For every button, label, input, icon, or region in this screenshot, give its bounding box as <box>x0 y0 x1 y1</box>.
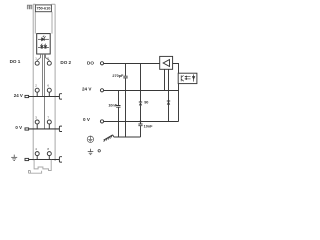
rail foot meander (DIN rail contact) <box>29 160 52 173</box>
wire from LED box to terminal 5 <box>46 54 50 61</box>
LED D2, D3 (bottom pair, channel 2) <box>38 44 49 49</box>
wire driver pin to 0V <box>168 69 170 121</box>
svg-text:DO: DO <box>87 60 94 65</box>
node DO (terminal circle) <box>100 62 103 65</box>
field plug earth <box>25 158 29 160</box>
wire DO to C1 <box>125 64 127 76</box>
wire 24V bus <box>29 96 60 98</box>
power jumper contact 0V <box>59 126 62 131</box>
wire 0V rail <box>104 121 179 123</box>
terminal circle pin 8 <box>47 152 51 156</box>
stub pin6 to bus <box>48 92 50 96</box>
wire 24V rail <box>104 90 179 92</box>
LED D1 (top, channel 1) <box>38 36 49 41</box>
power jumper contact 24V <box>59 94 62 99</box>
svg-text:270pF: 270pF <box>112 74 124 78</box>
terminal circle pin 4 <box>35 152 39 156</box>
wire 24V to C2 <box>118 91 120 106</box>
svg-text:0 V: 0 V <box>15 125 22 130</box>
svg-text:750-610: 750-610 <box>36 7 50 11</box>
power jumper contact earth <box>59 157 62 162</box>
diode D3 on driver 0V pin <box>167 100 170 102</box>
wire driver pin to 24V <box>164 69 166 90</box>
svg-text:DO 2: DO 2 <box>60 60 71 65</box>
field plug 0V <box>25 128 29 130</box>
node 24V (terminal circle) <box>100 89 103 92</box>
data contacts symbol (top left) <box>27 5 31 9</box>
wire C2 to ground bus <box>118 108 120 138</box>
wire Z1 to 0V rail <box>140 105 142 123</box>
wire from LED box to terminal 1 <box>37 54 40 61</box>
field plug 24V <box>25 95 29 97</box>
wire internal 0V feed <box>44 54 46 129</box>
terminal circle pin 3 <box>35 120 39 124</box>
wire driver out to optocoupler <box>173 64 179 74</box>
terminal circle pin 1 <box>35 61 39 65</box>
wire DO to suppressor Z1 <box>140 64 142 103</box>
earth symbol (left) <box>11 155 17 161</box>
functional earth symbol with terminal <box>88 149 101 155</box>
stub pin8 to bus <box>48 156 50 160</box>
junction dot wire C x 0V rail <box>140 121 142 123</box>
wire C3 to ground bus <box>140 126 142 137</box>
capacitor C2 10nF <box>116 106 120 108</box>
driver U2 (output amplifier box) <box>160 56 173 69</box>
terminal circle pin 6 <box>47 88 51 92</box>
svg-text:90: 90 <box>144 100 148 104</box>
module outline <box>33 4 55 161</box>
wire optocoupler to 0V <box>178 84 180 122</box>
LED box U1 <box>37 34 51 54</box>
wire C1 to ground bus <box>125 78 127 137</box>
stub pin2 to bus <box>36 92 38 96</box>
ground bus to rail <box>114 136 141 138</box>
capacitor C1 270pF <box>123 76 127 78</box>
wire 0V bus <box>29 128 60 130</box>
driver U2 triangle symbol <box>163 60 169 67</box>
stub pin4 to bus <box>36 156 38 160</box>
wire earth bus <box>29 159 60 161</box>
svg-text:24 V: 24 V <box>14 93 23 98</box>
node 0V (terminal circle) <box>100 120 103 123</box>
svg-text:DO 1: DO 1 <box>10 59 21 64</box>
svg-text:24 V: 24 V <box>82 86 92 91</box>
stub pin3 to bus <box>36 124 38 129</box>
DIN rail (hatched) <box>104 135 114 142</box>
light arrows <box>185 76 191 80</box>
stub pin7 to bus <box>48 124 50 129</box>
terminal circle pin 5 <box>47 61 51 65</box>
svg-text:10nF: 10nF <box>144 125 154 129</box>
svg-text:0 V: 0 V <box>83 117 91 122</box>
suppressor diode Z1 <box>139 101 142 103</box>
capacitor C3 10nF <box>138 124 142 126</box>
phototransistor (left) <box>181 75 184 81</box>
wire internal 24V feed <box>42 54 44 97</box>
wire DO rail <box>104 63 160 65</box>
optocoupler U3 <box>178 73 197 83</box>
terminal circle pin 2 <box>35 88 39 92</box>
protective earth symbol (circled) <box>87 136 93 143</box>
terminal circle pin 7 <box>47 120 51 124</box>
label box 750-610 <box>35 5 51 12</box>
LED (right, vertical diode) <box>192 74 195 81</box>
